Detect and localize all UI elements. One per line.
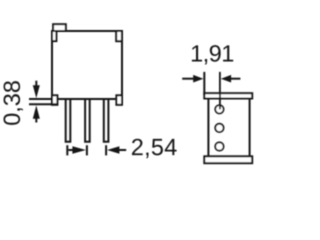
dimension text 2,54 <box>132 139 177 158</box>
dimension text 0,38 (rotated) <box>3 81 22 125</box>
dimension 2,54: tick at pin 2 <box>86 145 88 155</box>
dimension 2,54: left-pointing arrow at pin 3 with leader <box>107 146 126 154</box>
dimension 2,54: tick at pin 3 <box>105 145 107 155</box>
dimension 0,38: extension line upper <box>29 98 53 100</box>
pin 1 <box>66 99 71 142</box>
standoff bottom-left <box>52 95 57 105</box>
side view: pin hole 3 <box>215 142 223 150</box>
side view: pin hole 1 <box>215 105 223 113</box>
dimension 0,38: upper arrow (points down) <box>33 81 40 98</box>
adjustment screw tab (top-left) <box>53 24 66 31</box>
dimension 0,38: extension line lower <box>29 103 58 105</box>
side view: body <box>208 98 249 157</box>
side view: top flange bar <box>204 93 252 98</box>
pin 3 <box>104 99 109 142</box>
dimension 1,91: left arrow with leader <box>182 75 203 83</box>
dimension 1,91: right arrow with leader <box>221 75 241 83</box>
dimension 1,91: extension line left <box>203 72 205 95</box>
standoff top-right <box>116 31 122 41</box>
standoff bottom-right <box>116 95 122 105</box>
dimension 0,38: lower arrow (points up) <box>33 105 40 122</box>
trimmer front view: body outline <box>52 31 122 99</box>
side view: pin hole 2 <box>215 124 223 132</box>
dimension 2,54: tick at pin 1 <box>66 145 68 155</box>
pin 2 <box>85 99 90 142</box>
side view: bottom flange bar <box>204 156 252 163</box>
dimension text 1,91 <box>192 45 233 64</box>
standoff top-left <box>52 31 56 41</box>
dimension 2,54: right-pointing arrow between pin1 and pin2 <box>68 146 86 154</box>
dimension 1,91: extension line right (to hole 1 center) <box>219 72 221 109</box>
